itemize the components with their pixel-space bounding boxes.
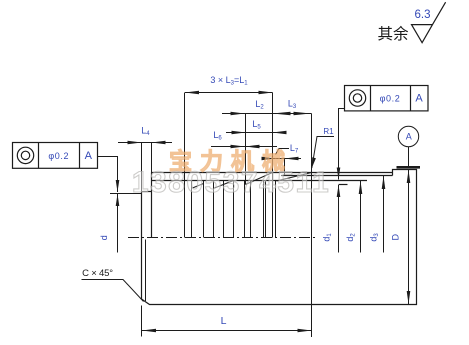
svg-text:L5: L5 (252, 119, 261, 131)
svg-text:L6: L6 (213, 130, 222, 142)
svg-text:L2: L2 (255, 99, 264, 111)
svg-text:A: A (415, 93, 423, 105)
svg-text:d1: d1 (321, 233, 333, 242)
svg-text:C × 45°: C × 45° (82, 268, 113, 279)
svg-text:其余: 其余 (377, 24, 409, 43)
svg-text:d3: d3 (368, 233, 380, 242)
svg-text:D: D (391, 234, 401, 241)
svg-text:13805374511: 13805374511 (132, 166, 330, 199)
svg-text:φ0.2: φ0.2 (380, 94, 401, 104)
svg-text:d: d (99, 235, 109, 240)
svg-text:3 × L3=L1: 3 × L3=L1 (210, 75, 248, 87)
svg-text:L: L (221, 315, 227, 327)
svg-text:L3: L3 (288, 99, 297, 111)
svg-text:R1: R1 (323, 127, 334, 136)
svg-text:d2: d2 (345, 233, 357, 242)
svg-text:A: A (406, 132, 412, 142)
svg-text:L4: L4 (141, 126, 150, 138)
svg-text:A: A (85, 150, 93, 162)
svg-text:6.3: 6.3 (415, 9, 431, 21)
svg-text:φ0.2: φ0.2 (48, 151, 69, 161)
